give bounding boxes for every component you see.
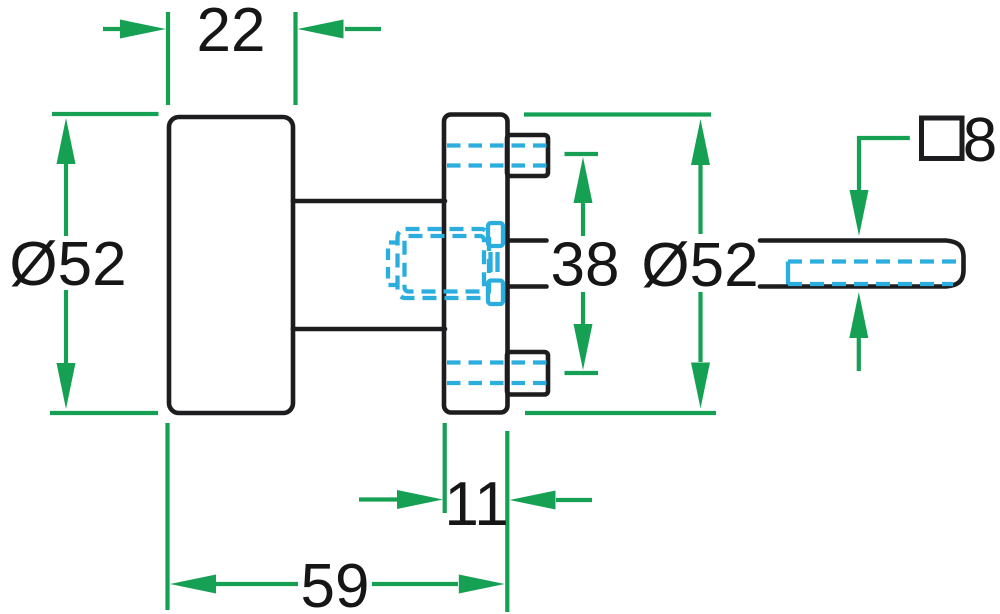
dim 11 left arrow xyxy=(397,490,443,509)
flange plate (rose) xyxy=(444,115,508,413)
dim Ø52 left up arrow xyxy=(57,118,76,164)
dim 38 down arrow xyxy=(574,324,593,370)
dim Ø52 right down arrow xyxy=(691,363,710,409)
dim 59 extension line left xyxy=(165,423,169,610)
spindle bar hidden slot top xyxy=(788,259,957,263)
svg-text:59: 59 xyxy=(301,552,370,614)
grub screw inner body (hidden) xyxy=(405,236,485,292)
dim Ø52 left ticks xyxy=(52,112,159,116)
dim 8 bottom arrow xyxy=(849,292,868,338)
screw nut bottom corner xyxy=(488,281,503,305)
dim 22 right arrow xyxy=(298,20,344,39)
svg-text:Ø52: Ø52 xyxy=(9,230,126,299)
dim 38 line xyxy=(581,200,585,236)
screw nut top corner xyxy=(488,223,503,246)
spindle stub bottom edge xyxy=(509,284,547,289)
dim Ø52 left line xyxy=(64,160,68,236)
top fixing stud xyxy=(507,135,548,176)
dim 11 extension lines xyxy=(443,423,447,513)
grub screw outer body (hidden) xyxy=(398,229,490,298)
nut hidden edges xyxy=(488,252,492,272)
svg-text:11: 11 xyxy=(444,470,508,539)
dim 59 left arrow xyxy=(170,575,216,594)
dim 8 leader xyxy=(859,138,910,192)
hidden (blue) lines xyxy=(388,146,957,384)
spindle bar (right detail view) xyxy=(760,241,964,287)
dim 8 bottom arrow shaft xyxy=(857,336,861,371)
bottom stud hole centerlines xyxy=(447,360,547,364)
dim 38 ticks xyxy=(565,152,599,156)
dim Ø52 right ticks xyxy=(524,112,711,116)
dim 59 line xyxy=(215,582,298,586)
knob neck top edge xyxy=(293,199,445,204)
dim Ø52 left down arrow xyxy=(57,363,76,409)
svg-text:22: 22 xyxy=(197,0,266,65)
dim 11 right arrow xyxy=(510,491,556,510)
top stud hole centerlines xyxy=(447,143,547,147)
knob head (front cylinder, side view) xyxy=(169,117,293,413)
spindle bar hidden slot left end xyxy=(786,262,790,285)
dim Ø52 right up arrow xyxy=(691,119,710,165)
green arrowheads xyxy=(57,20,869,594)
svg-text:38: 38 xyxy=(551,231,620,300)
svg-text:8: 8 xyxy=(963,106,997,175)
dim 22 extension lines xyxy=(166,12,170,105)
grub screw head bracket (hidden) xyxy=(388,243,398,286)
dim 22 leader tails xyxy=(103,27,122,31)
svg-text:Ø52: Ø52 xyxy=(641,231,758,300)
spindle stub top edge xyxy=(509,238,547,243)
dim 38 up arrow xyxy=(574,157,593,203)
knob neck bottom edge xyxy=(293,327,445,332)
dim 11 arrow tails xyxy=(359,497,398,501)
bottom fixing stud xyxy=(507,352,548,395)
dim Ø52 right line xyxy=(698,162,702,234)
square-section symbol of dim 8 xyxy=(922,118,963,159)
spindle bar hidden slot bottom xyxy=(788,282,953,286)
dim 22 left arrow xyxy=(120,20,166,39)
dim 8 top arrow xyxy=(850,190,869,236)
dim 59 right arrow xyxy=(459,575,505,594)
